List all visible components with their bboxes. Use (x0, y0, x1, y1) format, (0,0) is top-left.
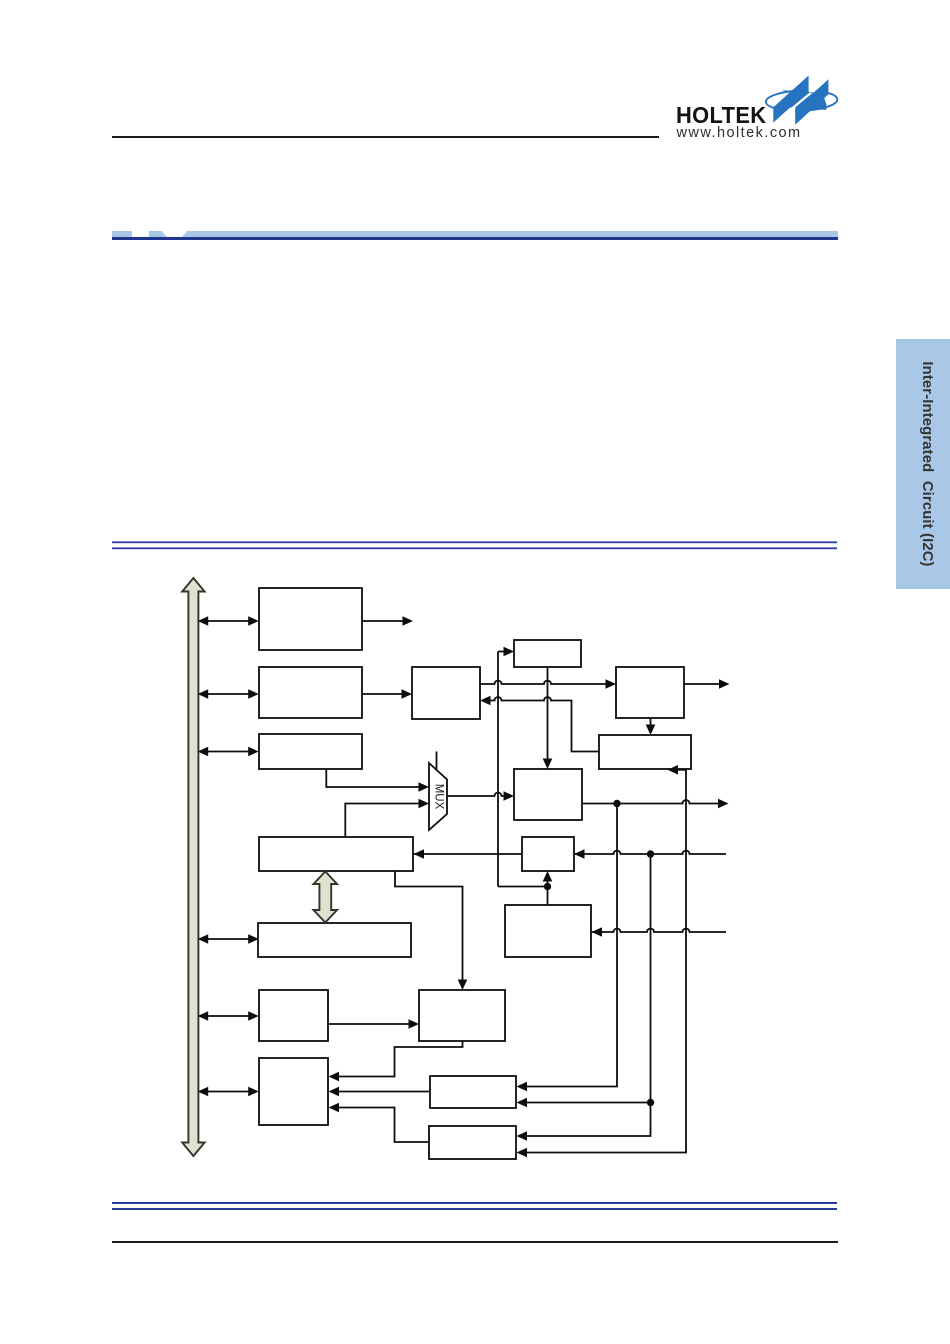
wire box5 down to box8 (395, 871, 467, 990)
wire vertical x686 to box11 input2 (517, 770, 687, 1158)
box MB mux destination (514, 769, 582, 820)
wire sda input line y854 (414, 850, 727, 857)
wire DB up to SB2 (543, 871, 553, 905)
Holtek logo url (677, 125, 877, 141)
bottom double rule upper (112, 1202, 837, 1204)
chapter number 16 white knockout: bowl of 6 (161, 212, 188, 239)
box6 wide register lower (258, 923, 411, 957)
wire mux input2 from box5 (345, 799, 429, 837)
chapter header bar (112, 231, 838, 238)
box8 middle (419, 990, 505, 1041)
box1 top-left register (259, 588, 362, 650)
Holtek logo wordmark (676, 102, 843, 129)
logo right slash (795, 79, 828, 124)
bus bidirectional wire to box7 (198, 1011, 259, 1021)
chapter number 16 white knockout: stem of 1 (132, 222, 148, 238)
box DB debounce (505, 905, 591, 957)
box10 right small upper (430, 1076, 516, 1108)
wire scl input line y932 (592, 927, 727, 937)
box SB2 small shift (522, 837, 574, 871)
wire into box3 y700 and down to WB2 (480, 696, 599, 752)
bus bidirectional wire to box4 (198, 747, 259, 757)
Holtek logo icon (760, 68, 844, 132)
wire box1 output (362, 616, 413, 626)
wire box10 to box9 input2 (329, 1087, 431, 1097)
wire WB2 bottom-left arrow (668, 765, 687, 775)
box7 left small (259, 990, 328, 1041)
box4 third register (259, 734, 362, 769)
wire vertical x498 feed SB1 (498, 647, 548, 887)
wire SB1 down to MB (543, 667, 553, 769)
side tab (896, 339, 950, 589)
wire MB output right y803 (582, 799, 729, 809)
bottom black rule (112, 1241, 838, 1243)
mux select wire (436, 752, 438, 771)
wire vertical x650 to box10 and box11 (517, 854, 655, 1141)
bidirectional buffer arrow between box5 and box6 (314, 872, 338, 923)
svg-text:MUX: MUX (433, 784, 445, 810)
data bus vertical arrow (182, 578, 204, 1156)
wire box7 to box8 (328, 1019, 419, 1029)
wire box3 to RB1 y684 (480, 679, 616, 689)
box5 wide register (259, 837, 413, 871)
box3 comparator (412, 667, 480, 719)
chapter header navy rule (112, 237, 838, 240)
mux trapezoid (429, 763, 447, 830)
wire mux input1 from box4 (326, 769, 429, 792)
bus bidirectional wire to box2 (198, 689, 259, 699)
logo ellipse orbit (766, 89, 838, 112)
box WB2 wide right (599, 735, 691, 769)
bus bidirectional wire to box6 (198, 934, 259, 944)
box RB1 right of SB1 (616, 667, 684, 718)
wire mux output to MB (447, 791, 514, 801)
side tab label (919, 361, 935, 566)
logo white notch upper (809, 79, 828, 93)
wire vertical x617 to box10 input1 (517, 804, 618, 1092)
wire RB1 output right (684, 679, 730, 689)
bus bidirectional wire to box1 (198, 616, 259, 626)
wire box8 down to box9 input1 (329, 1041, 463, 1081)
wire sda arrowheads (414, 849, 585, 859)
wire box2 to box3 (362, 689, 412, 699)
logo white notch lower (774, 108, 795, 125)
top rule (112, 136, 659, 138)
logo left slash (773, 76, 808, 123)
bus bidirectional wire to box9 (198, 1087, 259, 1097)
box SB1 small top (514, 640, 581, 667)
logo middle band (772, 90, 827, 110)
logo white slit in band (791, 93, 813, 108)
wire RB1 down to WB2 (646, 718, 656, 735)
box11 right small lower (429, 1126, 516, 1159)
figure top double rule (112, 541, 837, 549)
box2 second register (259, 667, 362, 718)
wire box11 to box9 input3 (329, 1103, 430, 1142)
box9 left bottom (259, 1058, 328, 1125)
bottom double rule lower (112, 1208, 837, 1210)
